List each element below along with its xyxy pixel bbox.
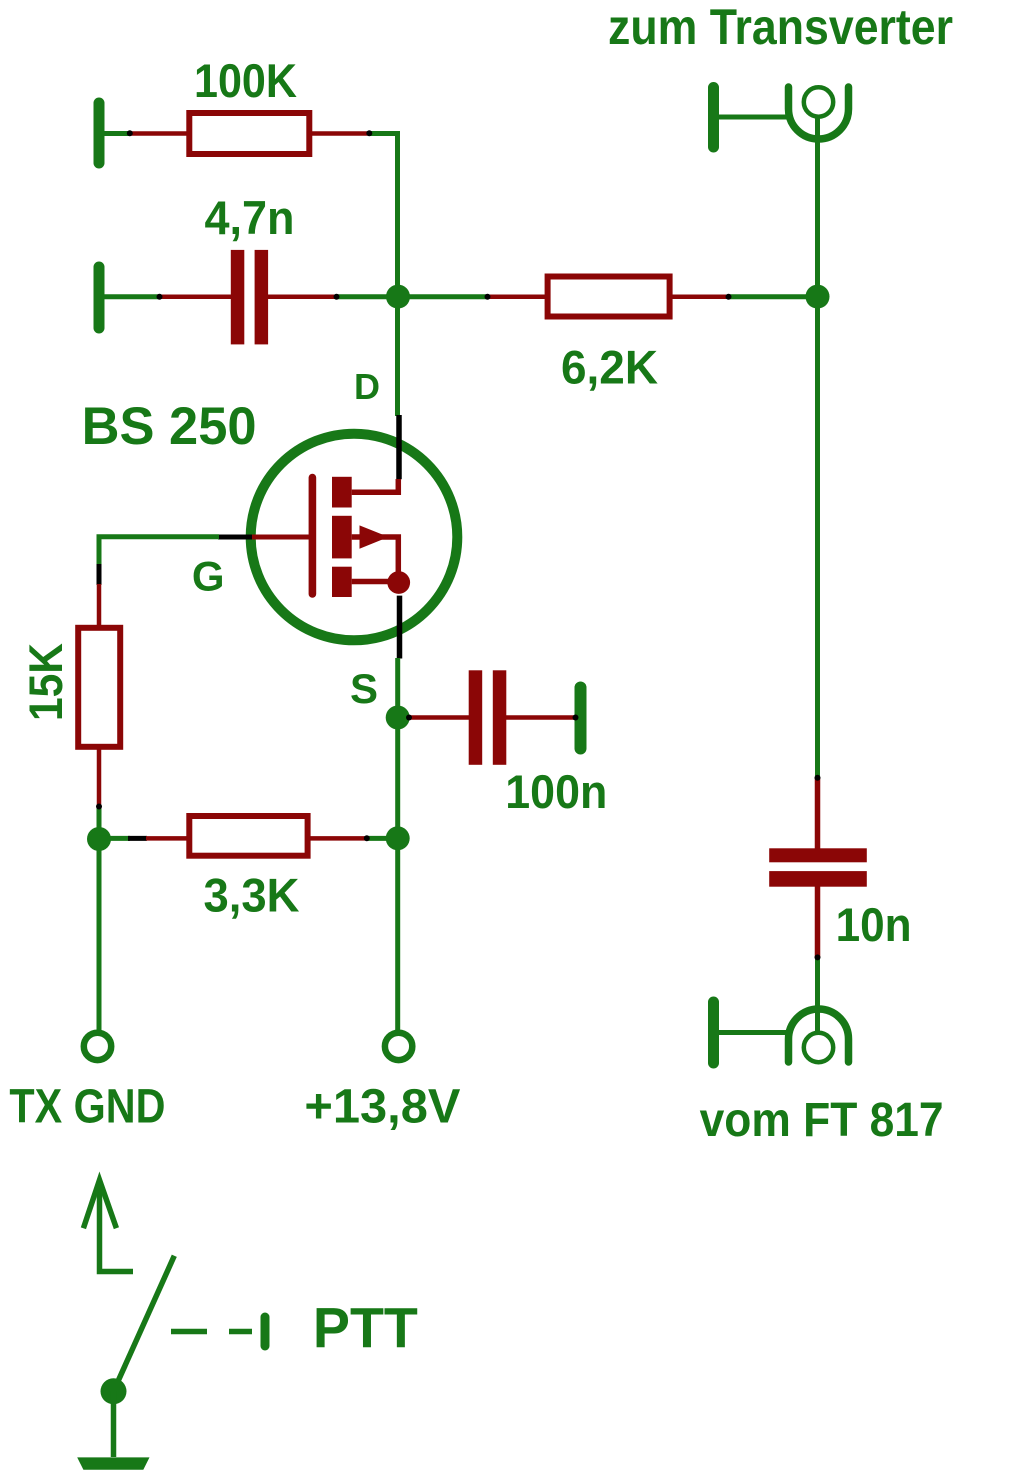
terminal stub bar (4,7n input) bbox=[94, 267, 105, 328]
drain internal bbox=[352, 479, 399, 492]
substrate arrow bbox=[360, 525, 389, 548]
svg-text:15K: 15K bbox=[19, 643, 72, 721]
wire bbox=[103, 294, 160, 299]
source pin (black) bbox=[397, 596, 403, 659]
resistor 6,2K bbox=[487, 277, 729, 317]
resistor 3,3K bbox=[146, 816, 367, 856]
svg-text:3,3K: 3,3K bbox=[204, 869, 300, 922]
gate pin (black) bbox=[218, 535, 252, 540]
channel box top bbox=[332, 477, 352, 508]
svg-text:6,2K: 6,2K bbox=[561, 341, 658, 394]
switch PTT arrow shaft bbox=[100, 1180, 134, 1272]
wire bbox=[99, 836, 130, 841]
pin dot bbox=[485, 294, 491, 300]
ground symbol bbox=[77, 1457, 149, 1469]
svg-text:S: S bbox=[350, 665, 378, 712]
capacitor 4,7n bbox=[159, 250, 337, 345]
junction node (drain net) bbox=[386, 285, 410, 309]
terminal pad TX GND bbox=[84, 1033, 111, 1060]
15K top pin black segment bbox=[97, 564, 102, 585]
switch PTT lever bbox=[114, 1256, 175, 1392]
wire bbox=[366, 836, 398, 841]
connector J1 stub bar bbox=[708, 88, 719, 148]
resistor 100K bbox=[130, 113, 369, 154]
connector J2 shield arc (vom FT 817) bbox=[789, 1009, 849, 1062]
switch actuator dash bbox=[171, 1329, 207, 1335]
3,3K left pin black segment bbox=[128, 836, 147, 841]
wire gate net bbox=[99, 537, 219, 565]
gate bar bbox=[309, 478, 317, 594]
gate pin internal bbox=[250, 535, 309, 540]
wire bbox=[111, 1391, 117, 1457]
terminal pad +13,8V bbox=[385, 1033, 412, 1060]
connector J2 center pin circle bbox=[804, 1033, 833, 1062]
switch PTT pivot dot bbox=[101, 1378, 127, 1404]
connector J1 shield arc (zum Transverter) bbox=[789, 87, 849, 139]
channel box bottom bbox=[332, 567, 352, 597]
connector J1 center pin circle bbox=[804, 87, 833, 116]
pin dot bbox=[334, 294, 340, 300]
svg-text:BS 250: BS 250 bbox=[82, 397, 257, 456]
resistor 15K bbox=[78, 584, 120, 806]
svg-text:100K: 100K bbox=[194, 54, 297, 107]
svg-text:vom FT 817: vom FT 817 bbox=[700, 1094, 944, 1147]
body circle bbox=[251, 434, 458, 641]
wire bbox=[103, 131, 131, 136]
pin dot bbox=[573, 715, 579, 721]
switch PTT arrow head bbox=[83, 1180, 116, 1228]
pin dot bbox=[406, 715, 412, 721]
svg-text:TX GND: TX GND bbox=[9, 1081, 165, 1134]
svg-text:PTT: PTT bbox=[313, 1296, 418, 1360]
pin dot bbox=[96, 804, 102, 810]
wire bbox=[717, 1030, 791, 1035]
source internal bbox=[352, 579, 392, 585]
switch actuator dash bbox=[229, 1329, 252, 1335]
transistor Q1 BS 250 bbox=[218, 415, 457, 659]
capacitor 10n bbox=[769, 777, 867, 958]
pin dot bbox=[366, 130, 372, 136]
svg-text:D: D bbox=[354, 366, 380, 407]
wire bbox=[368, 134, 398, 417]
channel box middle bbox=[332, 516, 352, 559]
svg-text:+13,8V: +13,8V bbox=[304, 1081, 460, 1134]
bulk wire bbox=[352, 537, 399, 575]
wire bbox=[815, 956, 820, 1033]
svg-text:10n: 10n bbox=[836, 898, 912, 951]
junction node (TX GND net) bbox=[87, 827, 111, 851]
capacitor 100n bbox=[408, 670, 576, 765]
wire bbox=[97, 806, 102, 1033]
bulk junction dot bbox=[387, 571, 410, 594]
wire bbox=[728, 294, 818, 299]
svg-text:4,7n: 4,7n bbox=[205, 191, 295, 244]
junction node (+13,8V net) bbox=[386, 826, 410, 850]
junction node S bbox=[386, 706, 410, 730]
wire bbox=[336, 294, 488, 299]
wire bbox=[815, 116, 820, 776]
switch actuator bar bbox=[261, 1317, 270, 1346]
pin dot bbox=[364, 835, 370, 841]
pin dot bbox=[815, 775, 821, 781]
drain pin (black) bbox=[396, 415, 402, 479]
pin dot bbox=[726, 294, 732, 300]
pin dot bbox=[127, 130, 133, 136]
svg-text:100n: 100n bbox=[505, 765, 607, 818]
terminal stub bar (100K input) bbox=[94, 103, 105, 163]
svg-text:zum Transverter: zum Transverter bbox=[608, 0, 953, 55]
wire source net vertical bbox=[395, 658, 400, 1033]
pin dot bbox=[157, 294, 163, 300]
pin dot bbox=[815, 954, 821, 960]
terminal stub bar (100n right) bbox=[575, 688, 587, 749]
connector J2 stub bar bbox=[708, 1002, 719, 1063]
wire bbox=[717, 115, 791, 120]
svg-text:G: G bbox=[192, 553, 225, 600]
junction node (transverter net) bbox=[806, 285, 830, 309]
